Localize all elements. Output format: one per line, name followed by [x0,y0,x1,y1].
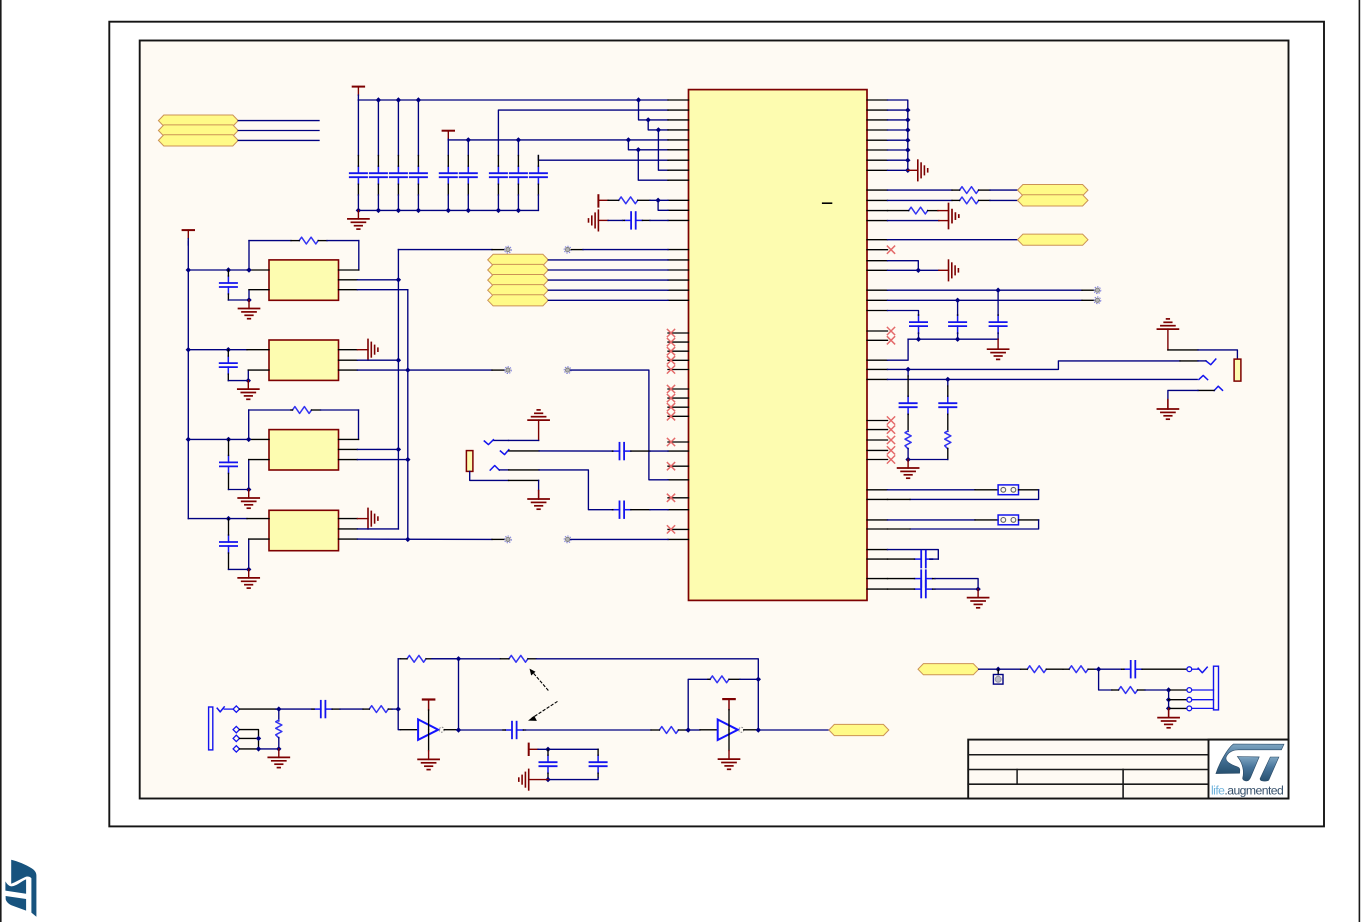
wire [357,100,359,156]
junction [626,137,631,142]
wire [1168,390,1198,399]
connector J5 pin3 [1187,697,1192,702]
wire [744,729,757,731]
wire [888,528,911,530]
pin U1 left [668,209,689,211]
wire [188,349,247,351]
wire [536,659,758,680]
jumper JP1 [998,485,1018,495]
junction [905,147,910,152]
capacitor C23 [220,350,237,381]
pin U1 left (NC) [667,494,688,501]
wire rail VDD top [358,99,668,101]
pin U1 right [867,109,888,111]
ground [988,339,1009,359]
wire [910,520,1039,529]
pin U1 right [867,368,888,370]
wire [650,509,668,511]
wire [224,708,233,710]
wire [888,498,911,500]
junction [916,337,921,342]
pin U1 left [668,259,689,261]
port P5 (control bus flag) [488,264,549,275]
wire [1192,689,1214,691]
wire stair A1 [639,100,669,120]
ground (J3 sleeve) [1157,400,1178,420]
connector J2 (mic jack body) [466,451,473,472]
resistor R15 (op-amp2 feedback) [708,676,740,683]
junction [396,447,401,452]
wire [248,539,250,569]
switch contact (J3 ring) [1199,375,1208,379]
wire [238,130,319,132]
junction [955,298,960,303]
wire [240,748,259,750]
pin U1 right (NC) [867,447,895,454]
junction [905,457,910,462]
ground [898,460,919,479]
resistor R16 [1021,666,1063,673]
pin U1 right [867,588,888,590]
pin U1 right [867,310,888,312]
connector J5 (jack body) [1214,666,1219,710]
pin U1 left [668,119,689,121]
wire [1019,519,1039,521]
wire [392,708,398,710]
wire [339,528,358,530]
junction [756,677,761,682]
ground flipped (mic jack ring) [528,410,549,441]
wire [979,668,1021,670]
wire cap C7 top to pin row7 [538,156,668,161]
capacitor C43 [590,749,607,777]
wire [1099,669,1112,690]
wire [907,415,909,432]
switch contact (J2 ring) [490,466,499,471]
wire [458,659,460,730]
pin U1 left [668,169,689,171]
junction [466,137,471,142]
wire [907,369,909,376]
wire [686,729,700,731]
power flag (U7) [723,699,734,729]
switch contact (J3 sleeve) [1214,386,1222,390]
test point TP9 [993,669,1003,684]
junction [416,97,421,102]
port P6 (control bus flag) [488,275,549,286]
junction [256,736,261,741]
ground (J5) [1158,708,1179,727]
junction [456,727,461,732]
resistor R9 [945,431,951,449]
wire bus VOUT-A [397,250,399,529]
wire [357,528,398,530]
wire [650,199,668,201]
junction [995,288,1000,293]
wire [377,100,379,156]
wire [517,140,519,156]
wire [467,140,469,156]
capacitor C24 [220,439,237,489]
junction [496,208,501,213]
wire [990,199,1018,201]
wire [467,195,469,210]
ground (cap block) [519,769,548,790]
pin U1 right [867,260,888,262]
IC U1 (main codec) [689,90,868,601]
wire [935,579,978,590]
pin U1 left (NC) [667,357,688,364]
wire [888,119,908,121]
pin U1 right [867,139,888,141]
junction [905,367,910,372]
port P13 (audio in flag) [918,664,979,675]
wire [247,370,249,381]
pin U1 left (NC) [667,413,688,420]
junction [1166,706,1171,711]
wire [228,380,248,382]
wire [888,261,919,271]
connector J3 (headphone jack body) [1234,359,1241,381]
terminal TP7 [1094,287,1101,294]
pin U1 left [668,299,689,301]
ground (R7) [938,204,959,229]
pin U1 right [867,159,888,161]
wire stair A3 [658,130,668,170]
switch contact (J4 tip) [217,707,224,712]
wire [539,470,612,510]
wire [700,729,718,731]
resistor R10 [276,709,282,749]
capacitor C33 [949,315,966,334]
connector J4 (line-in) body [209,707,213,750]
capacitor C8 [510,156,527,196]
wire [1145,689,1166,691]
pin U1 right [867,558,888,560]
voltage regulator U5 [269,510,339,550]
wire [1168,349,1198,351]
port P1 (top-left net flag) [158,115,238,126]
wire [397,100,399,156]
wire [997,334,999,340]
wire [249,459,269,461]
junction [975,586,980,591]
wire [908,459,948,461]
wire [493,439,508,441]
pin U1 right (NC) [867,246,895,253]
ground (U5 pin) [357,508,378,529]
wire [247,349,269,351]
wire [1168,690,1170,708]
junction [686,727,691,732]
pin U1 left [668,109,689,111]
junction [466,208,471,213]
wire [447,140,449,156]
junction [955,337,960,342]
wire [947,379,949,386]
capacitor C31 [612,501,650,518]
pin U1 left (NC) [667,385,688,392]
wire [538,480,540,490]
wire [538,748,598,750]
resistor R12 (op-amp1 feedback) [401,655,433,662]
pin U1 right [867,498,888,500]
junction [545,747,550,752]
pin U1 left (NC) [667,329,688,336]
ground (U6) [418,730,439,770]
capacitor C10 [623,212,651,229]
junction [1166,687,1171,692]
pin U1 right [867,169,888,171]
junction [376,97,381,102]
wire [650,450,668,452]
junction [246,297,251,302]
switch contact (J2 tip) [500,450,508,455]
pin U1 right (NC) [867,327,895,334]
wire [1019,489,1039,491]
junction [905,168,910,173]
wire [397,195,399,210]
title block [968,740,1288,799]
wire [357,289,407,291]
wire [888,239,1018,241]
junction [516,208,521,213]
capacitor C44 [1122,661,1187,678]
wire [432,658,500,660]
capacitor C42 [539,749,556,777]
wire [247,518,269,520]
wire [539,450,612,452]
wire [357,459,407,461]
wire [401,729,419,731]
connector J5 pin2 [1187,688,1192,693]
wire [1198,360,1206,362]
wire [417,100,419,156]
wire rail2 into pin [628,139,668,141]
power flag VDD (bank1) [353,87,364,100]
port P8 (control bus flag) [488,295,549,306]
ground [939,260,959,281]
junction [396,706,401,711]
capacitor C37 [888,551,933,568]
capacitor C25 [220,519,237,570]
wire [509,469,539,471]
junction [1166,697,1171,702]
capacitor C5 [440,156,457,196]
ground (AGND flag) [589,210,609,231]
junction [376,208,381,213]
wire [571,538,668,540]
wire [888,361,1181,370]
inner schematic sheet [140,41,1289,799]
wire [457,729,503,731]
terminal TP5 [505,536,512,543]
op-amp U6 [418,719,444,740]
wire [537,195,539,210]
resistor R17 [1063,666,1095,673]
junction [396,97,401,102]
ground (U7) [719,730,740,769]
wire [229,489,249,491]
resistor R3 (U4 feedback) [249,407,359,440]
wire [339,369,358,371]
terminal TP4 [564,367,571,374]
junction [1096,667,1101,672]
wire [339,349,358,351]
wire [248,290,250,300]
terminal TP3 [505,367,512,374]
junction [396,277,401,282]
capacitor C34 [990,315,1007,334]
wire [548,299,668,301]
pin U1 left [668,139,689,141]
wire [509,439,539,441]
wire [499,469,508,471]
resistor R14 [651,727,686,734]
wire [497,195,499,210]
pin U1 right [867,299,888,301]
outer drawing frame [109,22,1324,827]
capacitor C40 (input AC coupling) [312,701,340,718]
pin U1 right [867,119,888,121]
ground (U4) [238,490,259,509]
port P11 [1018,234,1089,245]
terminal J4 pin1 [233,706,239,712]
wire [509,450,539,452]
resistor R18 [1112,687,1145,694]
junction [916,268,921,273]
resistor R1 [608,197,650,204]
pin U1 right [867,220,888,222]
wire [1169,707,1187,709]
wire [249,538,269,540]
wire left supply bus [187,241,189,519]
wire [339,359,358,361]
wire [377,195,379,210]
junction [405,457,410,462]
port P2 (top-left net flag) [158,125,238,136]
pin U1 left [668,129,689,131]
power flag (VDDA) [598,195,608,206]
junction [545,777,550,782]
wire [492,249,504,251]
wire [276,708,312,710]
pin U1 right [867,378,888,380]
ground (cap banks) [348,210,369,229]
wire [259,748,279,750]
pin U1 left [668,99,689,101]
port P9 [1018,185,1089,196]
wire [571,249,583,251]
wire [1192,668,1199,670]
wire [247,269,269,271]
wire [947,448,949,459]
wire [249,289,269,291]
wire [548,778,598,780]
switch contact (J3 tip) [1206,359,1216,365]
wire [1169,689,1187,691]
wire [357,359,398,361]
wire [492,369,504,371]
junction [655,198,660,203]
pin U1 right [867,99,888,101]
pin U1 right (NC) [867,436,895,443]
pin U1 left (NC) [667,366,688,373]
switch contact (jack J2 pin1) [484,440,493,445]
pin U1 left [668,509,689,511]
wire [888,139,908,141]
pin U1 right (NC) [867,426,895,433]
pin U1 right (NC) [867,456,895,463]
port P7 (control bus flag) [488,285,549,296]
capacitor C4 [410,156,427,196]
capacitor C3 [390,156,407,196]
wire [997,290,999,315]
wire [398,658,400,660]
pin U1 left (NC) [667,395,688,402]
jumper JP2 [998,515,1018,525]
ground arm [939,220,949,222]
ground (U3) [238,381,259,400]
wire [658,200,668,210]
capacitor C38 [888,570,936,587]
wire [188,518,247,520]
junction [226,267,231,272]
resistor R13 [500,655,536,662]
pin U1 left [668,279,689,281]
pin U1 right (NC) [867,417,895,424]
terminal TP2 [564,246,571,253]
pin U1 right [867,210,888,212]
junction [246,487,251,492]
wire [357,538,492,540]
wire [910,490,1039,500]
wire [247,438,269,440]
wire [188,269,247,271]
pin U1 left (NC) [667,526,688,533]
pin U1 right [867,289,888,291]
pin U1 left [668,538,689,540]
pin U1 right [867,199,888,201]
page border right edge [1359,0,1361,922]
pin U1 right [867,189,888,191]
page border left edge [0,0,2,922]
wire [975,489,998,491]
wire [1095,668,1122,670]
wire [357,448,398,450]
wire [339,289,358,291]
junction [656,127,661,132]
ground (J4) [268,749,289,768]
wire [240,708,277,710]
pin U1 right [867,269,888,271]
wire (VSS bus) [888,100,908,170]
wire [935,588,978,590]
junction [396,208,401,213]
wire [571,370,668,480]
wire [888,169,908,171]
wire [947,386,949,396]
wire [1192,707,1214,709]
junction [636,97,641,102]
connector J5 pin1 [1187,667,1192,672]
wire [492,538,504,540]
ground (VSS) [908,160,928,181]
wire [888,339,909,360]
op-amp U7 [718,720,744,741]
resistor R11 [363,706,392,713]
wire [888,199,953,201]
